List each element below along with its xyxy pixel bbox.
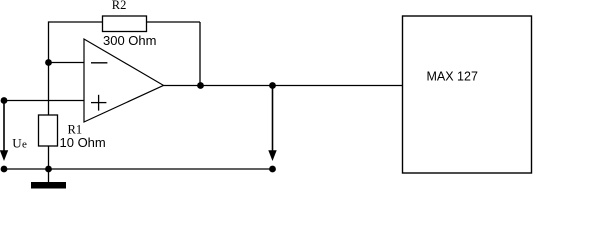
voltage arrow output (wire down from output tap) xyxy=(268,86,276,162)
wire top feedback right segment xyxy=(147,21,201,23)
resistor R1 xyxy=(39,115,58,146)
wire feedback left vertical (top wire down to R1 top, through minus node) xyxy=(48,21,50,115)
svg-text:U: U xyxy=(12,136,22,151)
voltage arrow input Ue (wire down from input node) xyxy=(0,101,8,162)
node R1 bottom junction xyxy=(45,166,52,173)
svg-text:R2: R2 xyxy=(112,0,127,12)
node bottom left junction xyxy=(1,166,8,173)
svg-text:10 Ohm: 10 Ohm xyxy=(60,135,106,150)
node output junction xyxy=(197,82,204,89)
node minus junction xyxy=(45,59,52,66)
svg-text:300 Ohm: 300 Ohm xyxy=(103,33,156,48)
wire inverting input xyxy=(49,62,85,64)
wire feedback right vertical xyxy=(199,22,201,86)
node output tap junction xyxy=(269,82,276,89)
ADC box MAX 127 xyxy=(403,16,532,173)
op-amp U1 xyxy=(84,39,164,122)
wire output xyxy=(164,85,403,87)
op-amp plus sign xyxy=(91,95,106,111)
svg-text:e: e xyxy=(22,139,27,151)
wire R1 bottom to ground xyxy=(48,146,50,182)
node input junction xyxy=(1,97,8,104)
svg-text:MAX 127: MAX 127 xyxy=(427,70,478,84)
wire non-inverting input xyxy=(4,100,84,102)
node bottom right junction xyxy=(269,166,276,173)
ground xyxy=(31,182,66,189)
op-amp minus sign xyxy=(91,62,107,64)
resistor R2 xyxy=(103,16,147,32)
wire bottom return xyxy=(4,168,273,170)
wire top feedback left segment xyxy=(49,21,103,23)
